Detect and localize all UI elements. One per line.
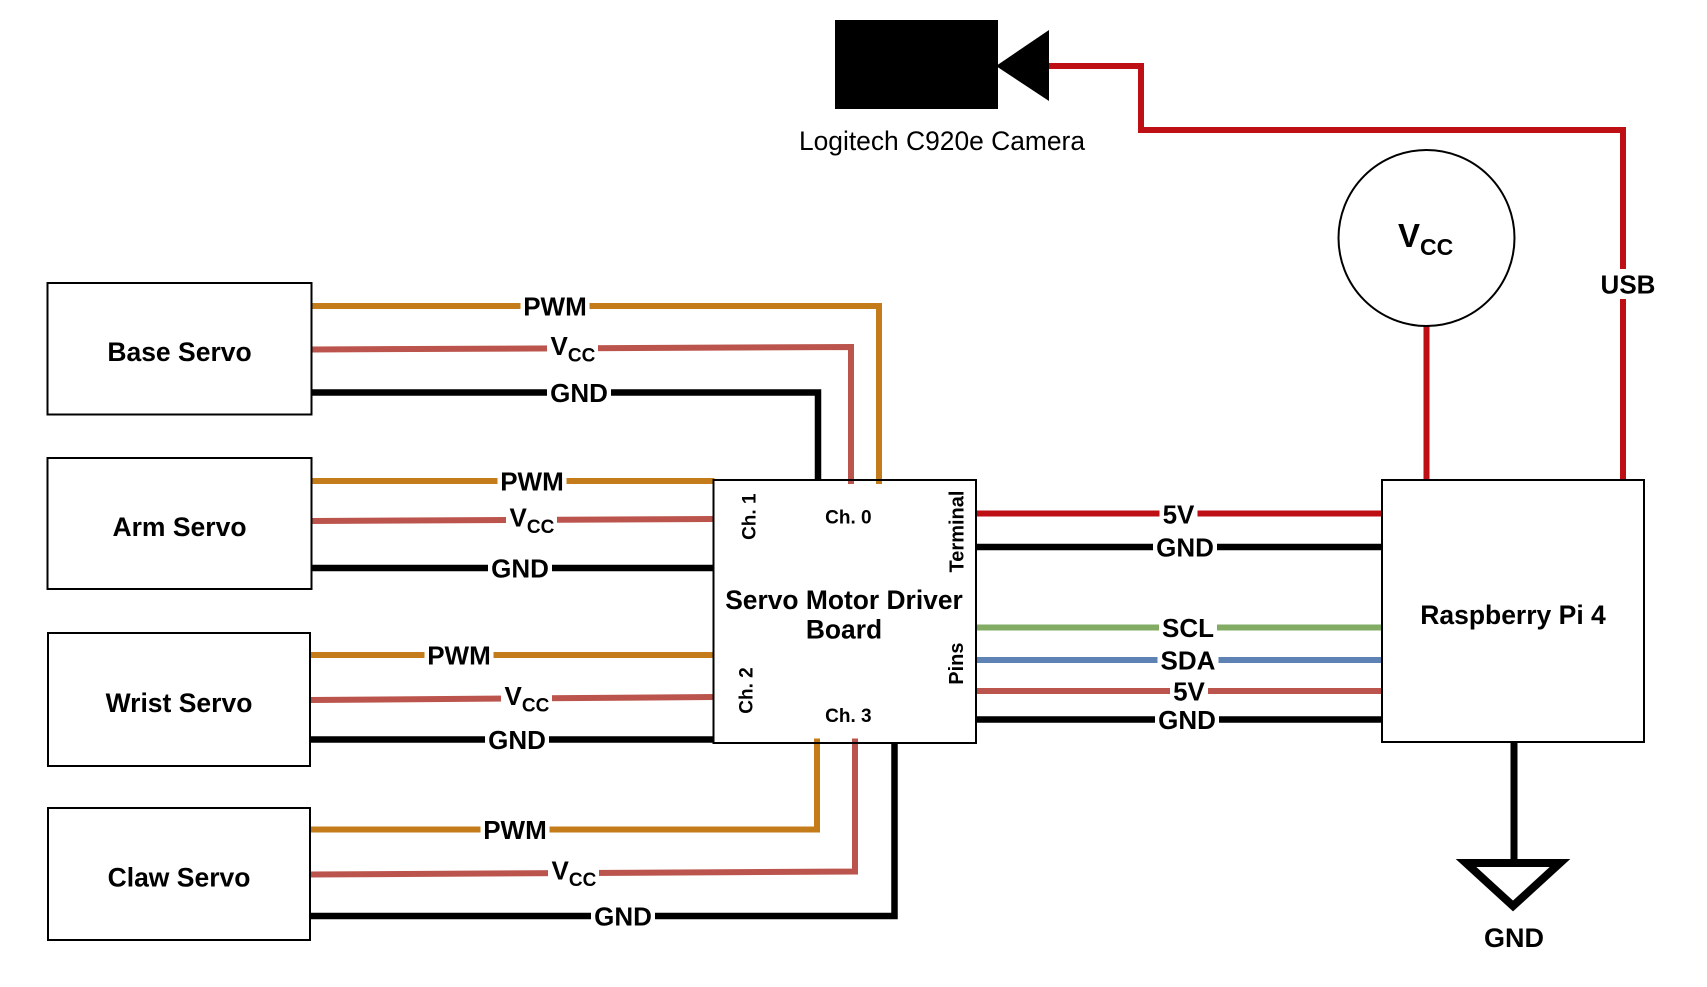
label 5V (terminal): [1160, 500, 1198, 530]
label PWM (Base): [521, 292, 590, 322]
box Raspberry Pi 4: [1382, 480, 1644, 742]
wire GND terminal (black): [976, 544, 1382, 551]
label PWM (Claw): [481, 815, 550, 845]
wire stub Base Vcc into board: [848, 481, 854, 484]
label Vcc (Base): [547, 331, 598, 367]
pin label Terminal: [946, 491, 968, 573]
svg-text:SDA: SDA: [1161, 646, 1216, 676]
wire Arm Servo GND (black): [311, 565, 715, 572]
svg-text:Ch. 2: Ch. 2: [737, 667, 758, 713]
wire Claw Servo GND (black): [310, 743, 895, 916]
svg-text:Servo Motor Driver: Servo Motor Driver: [725, 585, 963, 615]
wire GND pin (black): [976, 716, 1382, 723]
svg-text:GND: GND: [550, 378, 608, 408]
wire Wrist Servo GND (black): [310, 736, 715, 743]
wire Arm Servo PWM (orange): [311, 478, 715, 484]
pin label Ch. 2: [737, 667, 758, 713]
label GND (Arm): [488, 554, 552, 584]
svg-text:Pins: Pins: [946, 642, 968, 684]
wire 5V pin (salmon): [976, 688, 1382, 694]
wire stub Base PWM into board: [876, 481, 882, 484]
svg-text:GND: GND: [488, 725, 546, 755]
svg-text:GND: GND: [594, 902, 652, 932]
wire Arm Servo Vcc (salmon): [311, 519, 715, 521]
svg-text:Wrist Servo: Wrist Servo: [106, 688, 253, 718]
label Vcc (Claw): [548, 856, 599, 892]
label 5V (pin): [1170, 677, 1208, 707]
wire SDA (blue): [976, 657, 1382, 663]
svg-text:Arm Servo: Arm Servo: [112, 512, 246, 542]
label SDA: [1158, 646, 1219, 676]
label GND (Claw): [591, 902, 655, 932]
wire Base Servo Vcc (salmon): [311, 347, 851, 480]
svg-text:GND: GND: [1158, 705, 1216, 735]
label SCL: [1159, 613, 1217, 643]
wire SCL (green): [976, 625, 1382, 631]
svg-text:Ch. 0: Ch. 0: [825, 508, 871, 529]
label PWM (Arm): [498, 467, 567, 497]
wire Base Servo GND (black): [311, 393, 818, 481]
svg-text:GND: GND: [1156, 533, 1214, 563]
label GND (Base): [547, 378, 611, 408]
wire Claw Servo PWM (orange): [310, 743, 817, 830]
svg-text:PWM: PWM: [500, 467, 564, 497]
label GND (terminal): [1153, 533, 1217, 563]
node Vcc supply circle: [1339, 150, 1515, 326]
wire Wrist Servo PWM (orange): [310, 652, 715, 658]
wire Wrist Servo Vcc (salmon): [310, 697, 715, 700]
wire stub Claw Vcc into board: [852, 739, 858, 743]
svg-text:Terminal: Terminal: [946, 491, 968, 573]
label GND (pin): [1155, 705, 1219, 735]
svg-text:Ch. 3: Ch. 3: [825, 706, 871, 727]
pin label Pins: [946, 642, 968, 684]
pin label Ch. 1: [740, 493, 761, 540]
box Arm Servo: [48, 458, 312, 589]
svg-text:5V: 5V: [1163, 500, 1195, 530]
wire camera USB (red): [1049, 66, 1623, 480]
svg-text:USB: USB: [1601, 270, 1656, 300]
svg-text:PWM: PWM: [483, 815, 547, 845]
svg-text:Base Servo: Base Servo: [107, 337, 251, 367]
camera body (Logitech C920e): [835, 20, 998, 109]
svg-text:Claw Servo: Claw Servo: [108, 863, 251, 893]
wire Base Servo PWM (orange): [311, 306, 879, 480]
svg-text:Board: Board: [806, 615, 882, 645]
svg-text:PWM: PWM: [427, 641, 491, 671]
wire stub Claw PWM into board: [814, 739, 820, 743]
box Servo Motor Driver Board: [714, 480, 977, 743]
box Claw Servo: [48, 808, 310, 940]
label USB: [1597, 269, 1658, 300]
svg-text:GND: GND: [1484, 923, 1544, 953]
ground symbol: [1466, 863, 1560, 906]
wire Vcc supply to Raspberry Pi (red): [1424, 326, 1430, 480]
box Base Servo: [48, 283, 312, 415]
box Wrist Servo: [48, 633, 310, 766]
svg-text:SCL: SCL: [1162, 613, 1214, 643]
svg-text:PWM: PWM: [523, 292, 587, 322]
label GND (Wrist): [485, 725, 549, 755]
label PWM (Wrist): [425, 641, 494, 671]
wire 5V terminal (dark red): [976, 511, 1382, 517]
svg-text:Logitech C920e Camera: Logitech C920e Camera: [799, 126, 1085, 156]
camera lens triangle: [996, 30, 1049, 101]
label Vcc (Arm): [506, 503, 557, 539]
svg-text:Ch. 1: Ch. 1: [740, 493, 761, 540]
wire Raspberry Pi to ground (black): [1511, 742, 1518, 864]
label Vcc (Wrist): [501, 681, 552, 717]
svg-text:Raspberry Pi 4: Raspberry Pi 4: [1420, 600, 1606, 630]
wire Claw Servo Vcc (salmon): [310, 743, 855, 875]
svg-text:5V: 5V: [1173, 677, 1205, 707]
svg-text:GND: GND: [491, 554, 549, 584]
